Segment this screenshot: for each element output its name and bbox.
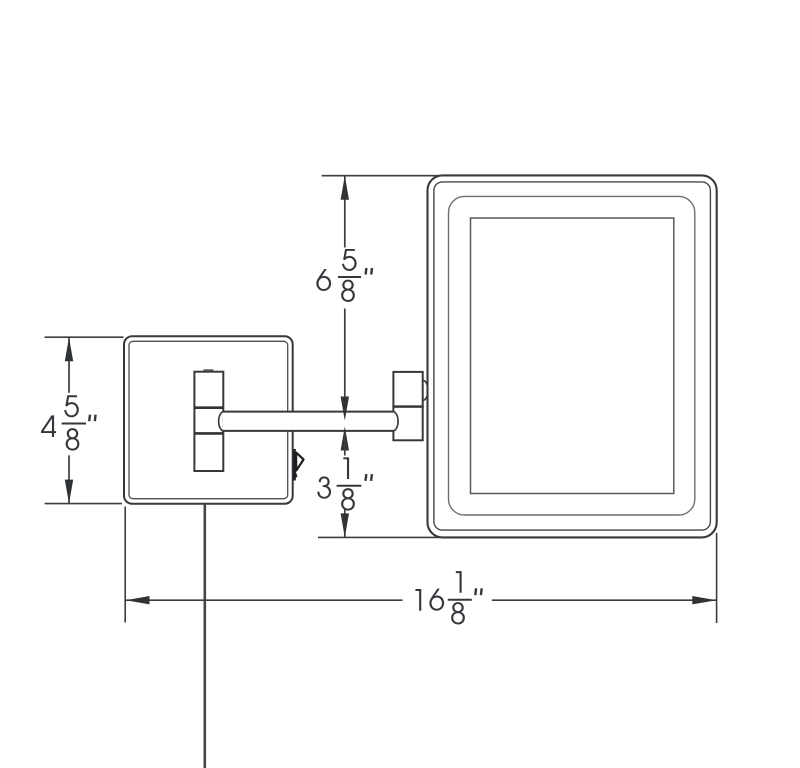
hinge divider bbox=[393, 405, 422, 407]
mirror outer shell bbox=[428, 175, 717, 537]
dim 16-1/8 left extension line bbox=[124, 507, 126, 623]
dim 6-5/8 line lower bbox=[344, 309, 346, 411]
arm right end cap bbox=[393, 412, 398, 431]
wall mount plate inner edge bbox=[129, 341, 288, 498]
mirror rim bbox=[434, 182, 711, 530]
dim 3-1/8 inch marks bbox=[366, 474, 372, 481]
dim 3-1/8 arrow up bbox=[341, 427, 349, 451]
dim 4-5/8 bottom extension line bbox=[45, 503, 122, 505]
mounting post bbox=[194, 372, 223, 471]
dim 16-1/8 fraction bar bbox=[448, 599, 472, 601]
dim 16-1/8 arrow left bbox=[126, 596, 150, 604]
dim 16-1/8 line left bbox=[126, 599, 403, 601]
dim 6-5/8 arrow down bbox=[341, 397, 349, 421]
dim 16-1/8 text bbox=[415, 571, 464, 624]
dim 3-1/8 bottom extension line bbox=[318, 536, 444, 538]
dim 4-5/8 arrow up bbox=[65, 337, 73, 361]
power switch bbox=[293, 449, 296, 481]
dim 4-5/8 line upper bbox=[68, 337, 70, 393]
power cord bbox=[204, 504, 207, 768]
dim 4-5/8 arrow down bbox=[65, 480, 73, 504]
dim 4-5/8 line lower bbox=[68, 455, 70, 503]
dim 3-1/8 fraction bar bbox=[337, 485, 362, 487]
mirror glass bbox=[471, 218, 674, 494]
arm left end cap bbox=[219, 412, 224, 431]
mirror front frame bbox=[449, 196, 695, 515]
dim 4-5/8 inch marks bbox=[89, 415, 95, 422]
dim 16-1/8 right extension line bbox=[716, 533, 718, 623]
dim 3-1/8 line lower bbox=[344, 509, 346, 537]
arm bbox=[222, 412, 394, 430]
post upper joint line bbox=[194, 406, 223, 409]
dim 3-1/8 text bbox=[317, 457, 355, 510]
dim 4-5/8 text bbox=[41, 395, 79, 450]
dim 6-5/8 inch marks bbox=[366, 268, 372, 275]
hinge block lower bbox=[393, 407, 422, 441]
dim 3-1/8 line upper bbox=[344, 432, 346, 456]
dim 6-5/8 extension line bbox=[322, 175, 444, 177]
dim 6-5/8 arrow up bbox=[341, 176, 349, 200]
dim 6-5/8 fraction bar bbox=[338, 276, 361, 278]
dim 3-1/8 arrow down bbox=[341, 513, 349, 537]
hinge knob bump bbox=[423, 380, 428, 400]
dim 16-1/8 line right bbox=[492, 599, 717, 601]
dim 4-5/8 fraction bar bbox=[62, 423, 86, 425]
dim 16-1/8 inch marks bbox=[475, 588, 481, 595]
dim 16-1/8 arrow right bbox=[692, 596, 716, 604]
hinge block upper bbox=[393, 372, 422, 407]
post top tick bbox=[204, 369, 214, 371]
dim 6-5/8 text bbox=[316, 249, 356, 302]
dim 6-5/8 line upper bbox=[344, 176, 346, 248]
wall mount plate outer bbox=[124, 336, 293, 503]
dim 4-5/8 top extension line bbox=[45, 336, 124, 338]
post lower joint line bbox=[194, 432, 223, 435]
